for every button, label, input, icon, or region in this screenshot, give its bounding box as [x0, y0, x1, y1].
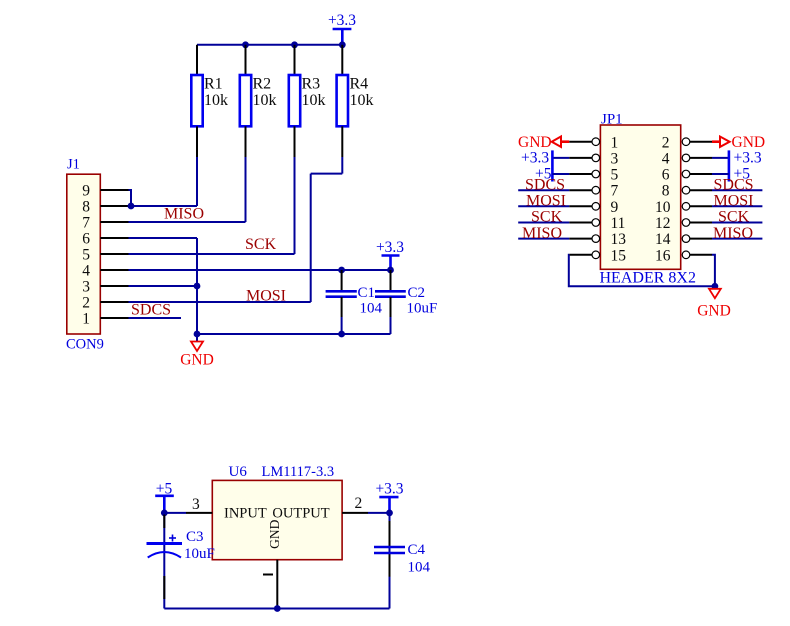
svg-text:10uF: 10uF [407, 301, 438, 317]
svg-text:6: 6 [662, 167, 670, 184]
power +3.3 JP1 right [712, 149, 762, 181]
JP1 pin 5 stub [569, 173, 592, 175]
svg-text:+3.3: +3.3 [328, 12, 356, 29]
svg-text:MOSI: MOSI [526, 193, 566, 210]
svg-text:10k: 10k [253, 92, 277, 109]
svg-text:SCK: SCK [531, 209, 563, 226]
svg-text:SCK: SCK [245, 236, 277, 253]
svg-text:SDCS: SDCS [131, 301, 171, 318]
svg-text:104: 104 [360, 301, 383, 317]
svg-text:12: 12 [655, 215, 671, 232]
wire +5 to INPUT [164, 512, 186, 514]
wire MOSI jog to R4 [311, 173, 343, 175]
JP1 pin 6 stub [690, 173, 712, 175]
JP1 pin 5 circle [592, 170, 600, 178]
U6 pin 2 OUTPUT [342, 495, 368, 513]
J1 pin 7 stub [100, 221, 128, 223]
svg-text:2: 2 [355, 495, 363, 512]
svg-text:SDCS: SDCS [525, 176, 565, 193]
JP1 pin 11 circle [592, 219, 600, 227]
svg-text:GND: GND [697, 303, 731, 320]
J1 pin 1 stub [100, 317, 128, 319]
JP1 pin 12 circle [682, 219, 690, 227]
JP1 pin 15 stub [569, 254, 592, 256]
GND arrow port left [518, 134, 569, 151]
wire GND rail bottom [197, 333, 391, 335]
wire pin3 to GND junction [129, 285, 198, 287]
svg-text:MISO: MISO [713, 225, 753, 242]
JP1 pin 13 circle [592, 235, 600, 243]
svg-text:C3: C3 [186, 529, 204, 545]
wire SDCS JP1 right [712, 189, 762, 191]
power +3.3 JP1 left [521, 149, 569, 181]
JP1 pin 11 stub [569, 222, 592, 224]
svg-text:C1: C1 [358, 285, 376, 301]
svg-text:10k: 10k [350, 92, 374, 109]
svg-text:13: 13 [611, 231, 627, 248]
svg-text:U6: U6 [229, 464, 248, 480]
wire MOSI net [129, 301, 311, 303]
JP1 pin 15 circle [592, 251, 600, 259]
wire R1 vertical [196, 157, 198, 206]
svg-text:C2: C2 [408, 285, 426, 301]
svg-text:GND: GND [267, 519, 282, 548]
resistor R1 [191, 45, 228, 157]
junction on rail at R4 [339, 41, 346, 48]
JP1 pin 10 circle [682, 203, 690, 211]
JP1 pin 14 stub [690, 238, 712, 240]
J1 pin 9 stub [100, 189, 128, 191]
svg-text:MISO: MISO [164, 206, 204, 223]
svg-text:MISO: MISO [522, 225, 562, 242]
JP1 pin 1 stub [569, 141, 592, 143]
svg-text:INPUT: INPUT [224, 506, 267, 522]
resistor R2 [240, 45, 277, 157]
JP1 pin 7 stub [569, 189, 592, 191]
JP1 pin 8 circle [682, 186, 690, 194]
JP1 pin 9 circle [592, 203, 600, 211]
JP1 pin 4 stub [690, 157, 712, 159]
wire OUTPUT to +3.3 [368, 512, 390, 514]
junction on rail at R3 [291, 41, 298, 48]
J1 pin 2 stub [100, 301, 128, 303]
svg-text:4: 4 [662, 150, 670, 167]
JP1 pin 9 stub [569, 205, 592, 207]
wire pin16 to GND [712, 255, 715, 286]
junction GND rail left [194, 331, 201, 338]
JP1 pin 3 stub [569, 157, 592, 159]
JP1 pin 14 circle [682, 235, 690, 243]
svg-text:3: 3 [82, 279, 90, 296]
svg-text:7: 7 [611, 183, 619, 200]
svg-text:3: 3 [611, 150, 619, 167]
svg-text:5: 5 [611, 167, 619, 184]
junction JP1 GND [712, 283, 719, 290]
svg-text:7: 7 [82, 215, 90, 232]
JP1 pin 1 circle [592, 138, 600, 146]
wire R2 vertical [245, 157, 247, 222]
J1 pin 3 stub [100, 285, 128, 287]
JP1 pin 7 circle [592, 186, 600, 194]
svg-text:J1: J1 [67, 157, 80, 173]
junction on rail at R2 [242, 41, 249, 48]
svg-text:2: 2 [82, 295, 90, 312]
ground symbol JP1 [697, 289, 731, 320]
svg-text:4: 4 [82, 263, 90, 280]
resistor R3 [289, 45, 326, 157]
svg-text:16: 16 [655, 247, 671, 264]
power +5 U6 [155, 480, 174, 513]
power +5 JP1 right [712, 165, 750, 182]
wire SCK JP1 left [518, 222, 569, 224]
wire +3.3 rail [197, 44, 342, 46]
svg-text:10k: 10k [204, 92, 228, 109]
svg-text:OUTPUT: OUTPUT [272, 506, 329, 522]
junction +3.3 C4 [386, 510, 393, 517]
J1 pin 8 stub [100, 205, 128, 207]
wire MOSI JP1 right [712, 205, 762, 207]
svg-text:2: 2 [662, 134, 670, 151]
svg-text:6: 6 [82, 231, 90, 248]
svg-text:R4: R4 [350, 76, 369, 93]
JP1 pin 16 stub [690, 254, 712, 256]
svg-text:+3.3: +3.3 [734, 149, 762, 166]
svg-text:HEADER 8X2: HEADER 8X2 [600, 270, 696, 287]
wire MISO JP1 right [712, 238, 762, 240]
svg-text:8: 8 [82, 199, 90, 216]
svg-text:SDCS: SDCS [714, 176, 754, 193]
wire R4 vertical [341, 157, 343, 174]
JP1 pin 6 circle [682, 170, 690, 178]
svg-text:+3.3: +3.3 [375, 480, 403, 497]
svg-text:R1: R1 [204, 76, 223, 93]
JP1 pin 4 circle [682, 154, 690, 162]
svg-text:10uF: 10uF [184, 546, 215, 562]
GND arrow port right [712, 134, 765, 151]
J1 pin 5 stub [100, 253, 128, 255]
JP1 pin 13 stub [569, 238, 592, 240]
svg-text:15: 15 [611, 247, 627, 264]
wire pin9 to pin8 [129, 190, 132, 206]
connector J1 CON9 [66, 157, 104, 353]
capacitor C3 [147, 513, 215, 609]
wire GND vertical [196, 238, 198, 334]
svg-text:9: 9 [611, 199, 619, 216]
svg-text:9: 9 [82, 183, 90, 200]
JP1 pin 10 stub [690, 205, 712, 207]
ground symbol J1 [180, 334, 214, 369]
svg-text:3: 3 [192, 496, 200, 513]
JP1 pin 2 circle [682, 138, 690, 146]
svg-text:10: 10 [655, 199, 671, 216]
svg-text:104: 104 [408, 560, 431, 576]
svg-text:LM1117-3.3: LM1117-3.3 [262, 464, 335, 480]
U6 pin 3 INPUT [186, 496, 212, 513]
wire MISO JP1 left [518, 238, 569, 240]
wire pin15 to GND [569, 255, 715, 286]
JP1 pin 2 stub [690, 141, 712, 143]
JP1 pin 12 stub [690, 222, 712, 224]
wire MOSI JP1 left [518, 205, 569, 207]
header JP1 [600, 112, 696, 287]
JP1 pin 16 circle [682, 251, 690, 259]
svg-text:5: 5 [82, 247, 90, 264]
power +3.3 U6 [375, 480, 403, 513]
junction U6 GND rail [274, 605, 281, 612]
svg-text:CON9: CON9 [66, 337, 104, 353]
power +3.3 capacitor rail [376, 239, 404, 270]
svg-text:10k: 10k [302, 92, 326, 109]
JP1 pin 8 stub [690, 189, 712, 191]
resistor R4 [337, 45, 374, 157]
wire +3.3 net pin4 [129, 269, 391, 271]
wire SCK JP1 right [712, 222, 762, 224]
svg-text:R2: R2 [253, 76, 272, 93]
capacitor C1 [326, 270, 383, 334]
U6 GND pin [263, 560, 277, 609]
svg-text:R3: R3 [302, 76, 321, 93]
svg-text:8: 8 [662, 183, 670, 200]
svg-text:+3.3: +3.3 [376, 239, 404, 256]
junction pin3 GND [194, 283, 201, 290]
junction pin8/pin9 [128, 203, 135, 210]
svg-text:MOSI: MOSI [246, 287, 286, 304]
power +3.3 pullup rail symbol [328, 12, 356, 45]
wire SCK net to R3 [129, 253, 295, 255]
capacitor C2 [375, 270, 437, 334]
wire pin7 to R2 [129, 221, 246, 223]
J1 pin 4 stub [100, 269, 128, 271]
svg-text:11: 11 [611, 215, 626, 232]
svg-text:1: 1 [82, 311, 90, 328]
wire pin6 to GND vertical [129, 237, 198, 239]
junction C1 bottom [338, 331, 345, 338]
regulator U6 LM1117-3.3 [212, 464, 342, 560]
power +5 JP1 left [535, 165, 569, 182]
JP1 pin 3 circle [592, 154, 600, 162]
wire MISO net to R1 [129, 205, 198, 207]
wire SDCS JP1 left [518, 189, 569, 191]
svg-text:14: 14 [655, 231, 671, 248]
wire SDCS net [129, 317, 182, 319]
wire R3 vertical [294, 157, 296, 254]
svg-text:1: 1 [611, 134, 619, 151]
wire MOSI vertical [310, 174, 312, 302]
J1 pin 6 stub [100, 237, 128, 239]
junction +5 C3 [161, 510, 168, 517]
svg-text:+3.3: +3.3 [521, 149, 549, 166]
svg-text:GND: GND [180, 352, 214, 369]
junction C1 top [338, 267, 345, 274]
svg-text:C4: C4 [408, 542, 426, 558]
svg-text:SCK: SCK [718, 209, 750, 226]
wire GND rail U6 [164, 608, 389, 610]
junction C2 top [387, 267, 394, 274]
capacitor C4 [374, 513, 431, 609]
svg-text:MOSI: MOSI [714, 193, 754, 210]
